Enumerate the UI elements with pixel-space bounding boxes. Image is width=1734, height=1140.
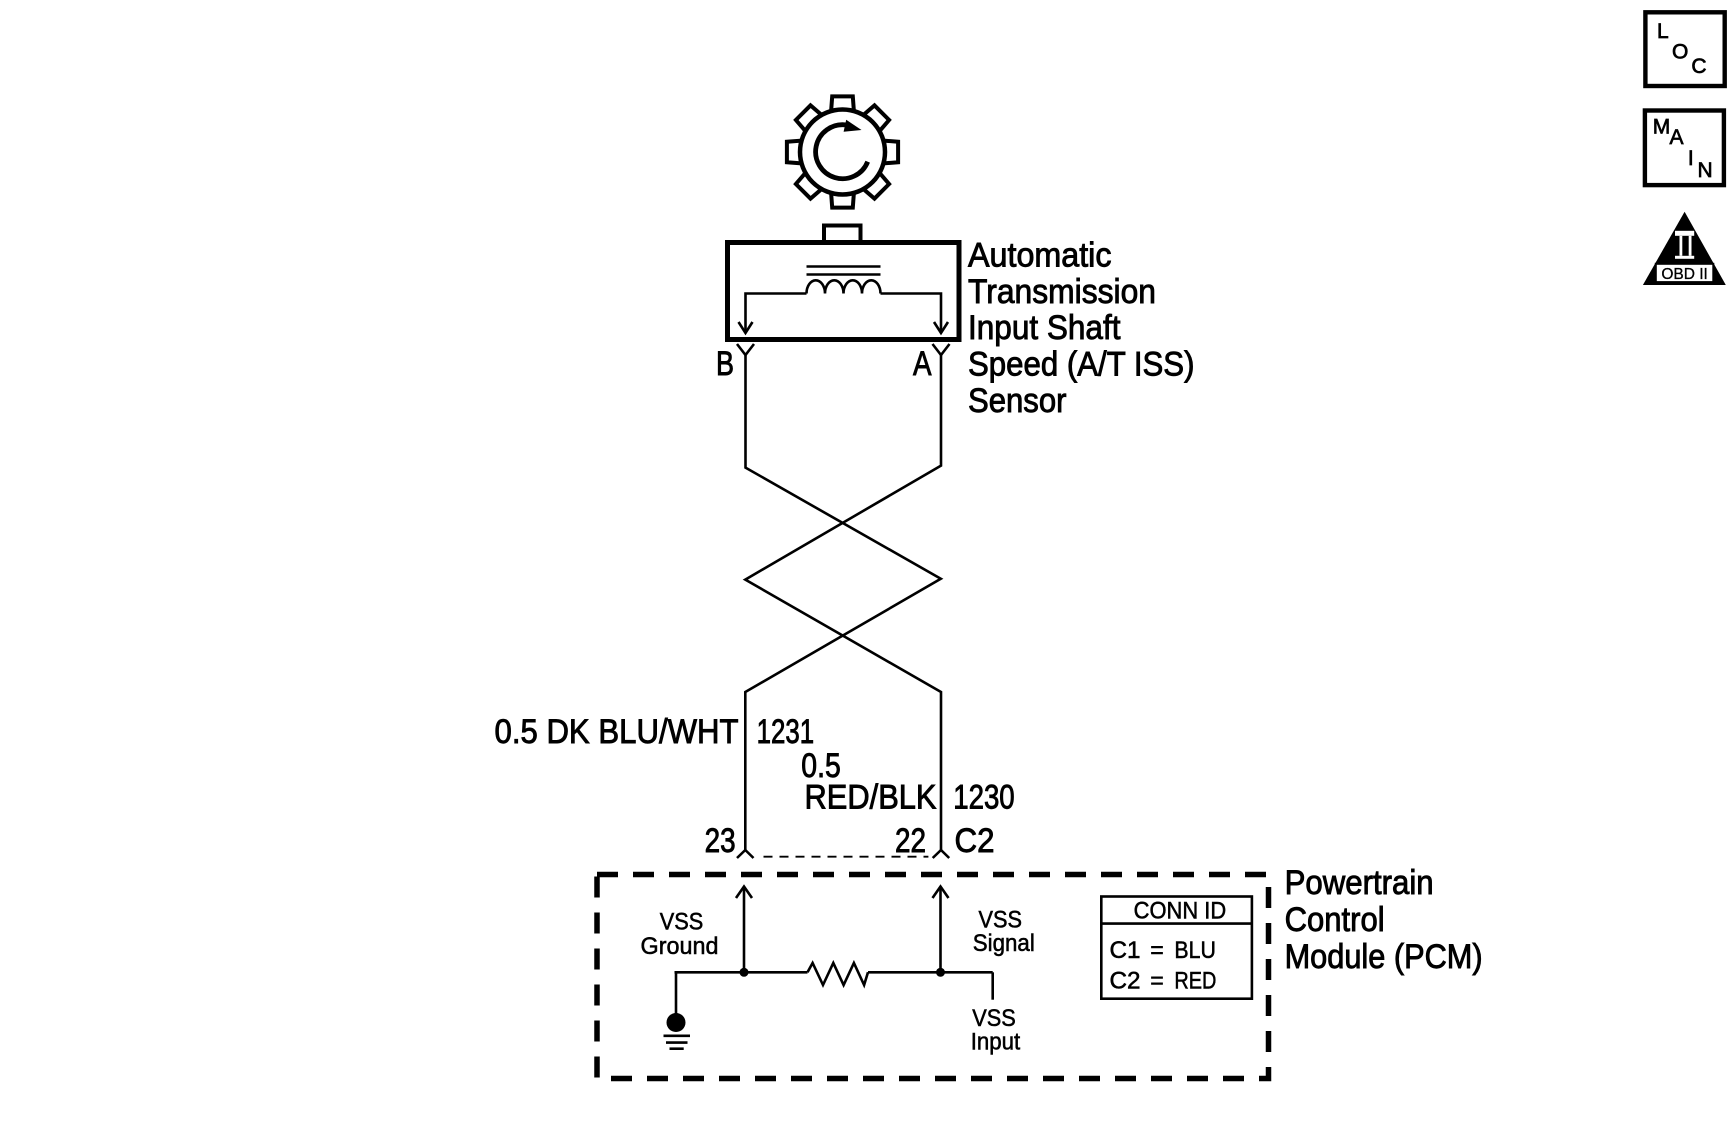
sensor name label xyxy=(968,237,1195,420)
pin 22 chevron xyxy=(933,850,950,858)
svg-text:Input: Input xyxy=(971,1029,1021,1056)
CONN ID table xyxy=(1101,897,1252,999)
svg-text:Speed (A/T ISS): Speed (A/T ISS) xyxy=(968,346,1195,384)
svg-text:C: C xyxy=(1691,55,1706,78)
svg-text:A: A xyxy=(913,345,932,383)
row C2 = RED xyxy=(1110,968,1217,995)
svg-text:O: O xyxy=(1672,41,1688,64)
svg-text:OBD II: OBD II xyxy=(1661,266,1708,283)
rotation arrow inside gear xyxy=(816,120,868,179)
svg-text:Sensor: Sensor xyxy=(968,382,1067,420)
svg-text:N: N xyxy=(1698,159,1713,182)
svg-text:B: B xyxy=(716,345,734,383)
right coil lead wire xyxy=(881,294,942,332)
svg-text:C2: C2 xyxy=(955,822,995,860)
svg-text:=: = xyxy=(1150,937,1164,964)
VSS Ground label xyxy=(641,909,719,960)
svg-text:1230: 1230 xyxy=(953,779,1015,817)
reluctor wheel (gear) icon xyxy=(787,96,898,207)
OBD II triangle xyxy=(1643,212,1726,285)
svg-text:CONN ID: CONN ID xyxy=(1134,898,1227,925)
VSS Input label xyxy=(971,1005,1021,1056)
LOC box xyxy=(1645,12,1724,86)
MAIN letters xyxy=(1653,115,1713,182)
svg-text:C2: C2 xyxy=(1110,968,1141,995)
right lead arrowhead xyxy=(934,322,948,333)
svg-text:A: A xyxy=(1670,126,1684,149)
inductor coil L1 xyxy=(807,280,881,293)
svg-text:VSS: VSS xyxy=(660,909,704,936)
VSS Signal label xyxy=(973,907,1035,958)
svg-text:0.5 DK BLU/WHT: 0.5 DK BLU/WHT xyxy=(495,713,739,751)
svg-text:Transmission: Transmission xyxy=(968,273,1156,311)
twisted pair wire B to pin 23 xyxy=(745,355,941,850)
svg-text:Signal: Signal xyxy=(973,930,1035,957)
wire to ground xyxy=(675,972,678,1014)
resistor xyxy=(808,963,869,985)
svg-text:BLU: BLU xyxy=(1174,937,1216,964)
svg-text:L: L xyxy=(1657,20,1669,43)
OBD II plate xyxy=(1656,264,1714,282)
svg-text:Input Shaft: Input Shaft xyxy=(968,309,1121,347)
svg-text:Powertrain: Powertrain xyxy=(1285,864,1434,902)
svg-text:RED/BLK: RED/BLK xyxy=(805,779,937,817)
LOC letters xyxy=(1657,20,1707,78)
connector C2 dashed line xyxy=(764,856,929,858)
A/T ISS sensor box xyxy=(728,226,960,340)
svg-text:Ground: Ground xyxy=(641,933,719,960)
svg-text:22: 22 xyxy=(895,822,926,860)
VSS Input stub wire xyxy=(991,972,994,999)
terminal B connector symbol xyxy=(737,344,754,355)
PCM name label xyxy=(1285,864,1483,976)
row C1 = BLU xyxy=(1110,937,1216,964)
svg-text:1231: 1231 xyxy=(757,713,815,751)
PCM dashed box xyxy=(597,875,1269,1079)
VSS Signal arrow xyxy=(939,888,942,972)
VSS Ground arrow xyxy=(743,888,746,972)
svg-text:C1: C1 xyxy=(1110,937,1141,964)
svg-text:RED: RED xyxy=(1174,968,1216,995)
left lead arrowhead xyxy=(739,322,753,333)
left coil lead wire xyxy=(746,294,807,332)
svg-text:I: I xyxy=(1688,147,1694,170)
svg-text:Control: Control xyxy=(1285,901,1385,939)
svg-text:Automatic: Automatic xyxy=(968,237,1112,275)
ground symbol xyxy=(664,1013,691,1049)
terminal A connector symbol xyxy=(933,344,950,355)
svg-text:Module (PCM): Module (PCM) xyxy=(1285,938,1483,976)
inductor core lines xyxy=(807,267,881,275)
junction dot left xyxy=(740,968,749,977)
internal wire with resistor xyxy=(675,971,808,974)
MAIN box xyxy=(1645,111,1724,186)
roman numeral II xyxy=(1675,231,1694,259)
twisted pair wire A to pin 22 xyxy=(745,355,941,850)
svg-text:M: M xyxy=(1653,115,1671,138)
svg-text:23: 23 xyxy=(705,822,736,860)
pin 23 chevron xyxy=(737,850,754,858)
svg-text:=: = xyxy=(1150,968,1164,995)
junction dot right xyxy=(936,968,945,977)
